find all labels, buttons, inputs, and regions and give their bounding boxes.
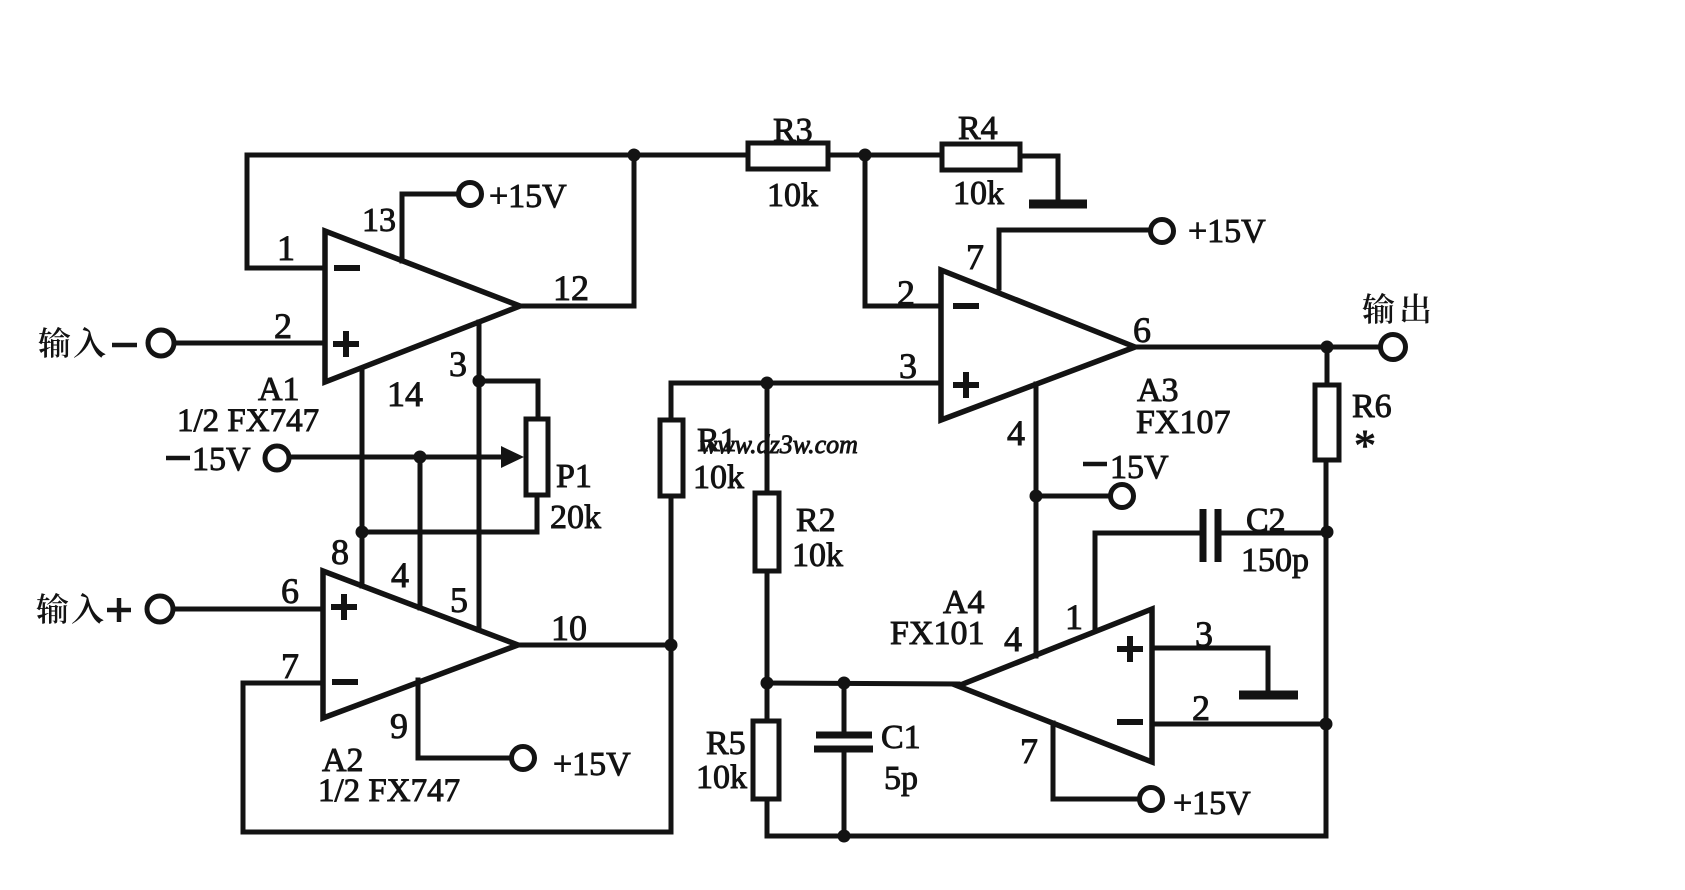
svg-text:1: 1 (1065, 597, 1083, 637)
svg-text:3: 3 (449, 344, 467, 384)
svg-text:15V: 15V (192, 441, 251, 478)
svg-text:3: 3 (1195, 614, 1213, 654)
svg-text:4: 4 (391, 555, 409, 595)
svg-text:C2: C2 (1246, 502, 1286, 539)
svg-text:6: 6 (281, 571, 299, 611)
svg-text:R4: R4 (958, 110, 998, 147)
svg-text:20k: 20k (550, 499, 601, 536)
svg-text:R3: R3 (773, 112, 813, 149)
svg-text:4: 4 (1004, 619, 1022, 659)
svg-text:FX101: FX101 (890, 615, 984, 652)
svg-text:10k: 10k (693, 459, 744, 496)
svg-text:10k: 10k (696, 759, 747, 796)
svg-text:13: 13 (362, 202, 396, 239)
svg-text:10: 10 (551, 608, 587, 648)
svg-text:5: 5 (450, 580, 468, 620)
svg-text:10k: 10k (792, 537, 843, 574)
svg-text:+15V: +15V (489, 178, 567, 215)
svg-text:8: 8 (331, 532, 349, 572)
svg-text:150p: 150p (1241, 542, 1309, 579)
svg-text:R2: R2 (796, 502, 836, 539)
svg-text:5p: 5p (884, 760, 918, 797)
svg-text:7: 7 (1020, 731, 1038, 771)
svg-text:3: 3 (899, 346, 917, 386)
svg-text:www.dz3w.com: www.dz3w.com (700, 430, 858, 459)
svg-text:P1: P1 (556, 458, 592, 495)
svg-text:4: 4 (1007, 413, 1025, 453)
svg-text:*: * (1354, 421, 1376, 470)
svg-text:7: 7 (966, 237, 984, 277)
svg-text:1: 1 (277, 228, 295, 268)
svg-text:12: 12 (553, 268, 589, 308)
svg-text:10k: 10k (953, 175, 1004, 212)
svg-text:2: 2 (274, 306, 292, 346)
svg-text:+15V: +15V (553, 746, 631, 783)
svg-text:15V: 15V (1110, 449, 1169, 486)
svg-text:1/2 FX747: 1/2 FX747 (177, 403, 319, 439)
svg-text:2: 2 (1192, 688, 1210, 728)
svg-text:+15V: +15V (1188, 213, 1266, 250)
svg-text:1/2 FX747: 1/2 FX747 (318, 773, 460, 809)
svg-text:14: 14 (387, 374, 423, 414)
svg-text:7: 7 (281, 646, 299, 686)
svg-text:6: 6 (1133, 310, 1151, 350)
svg-text:9: 9 (390, 706, 408, 746)
svg-text:+15V: +15V (1173, 785, 1251, 822)
svg-text:10k: 10k (767, 177, 818, 214)
svg-text:FX107: FX107 (1136, 404, 1230, 441)
svg-text:R5: R5 (706, 725, 746, 762)
svg-text:2: 2 (897, 273, 915, 313)
svg-text:C1: C1 (881, 719, 921, 756)
svg-text:R6: R6 (1352, 388, 1392, 425)
